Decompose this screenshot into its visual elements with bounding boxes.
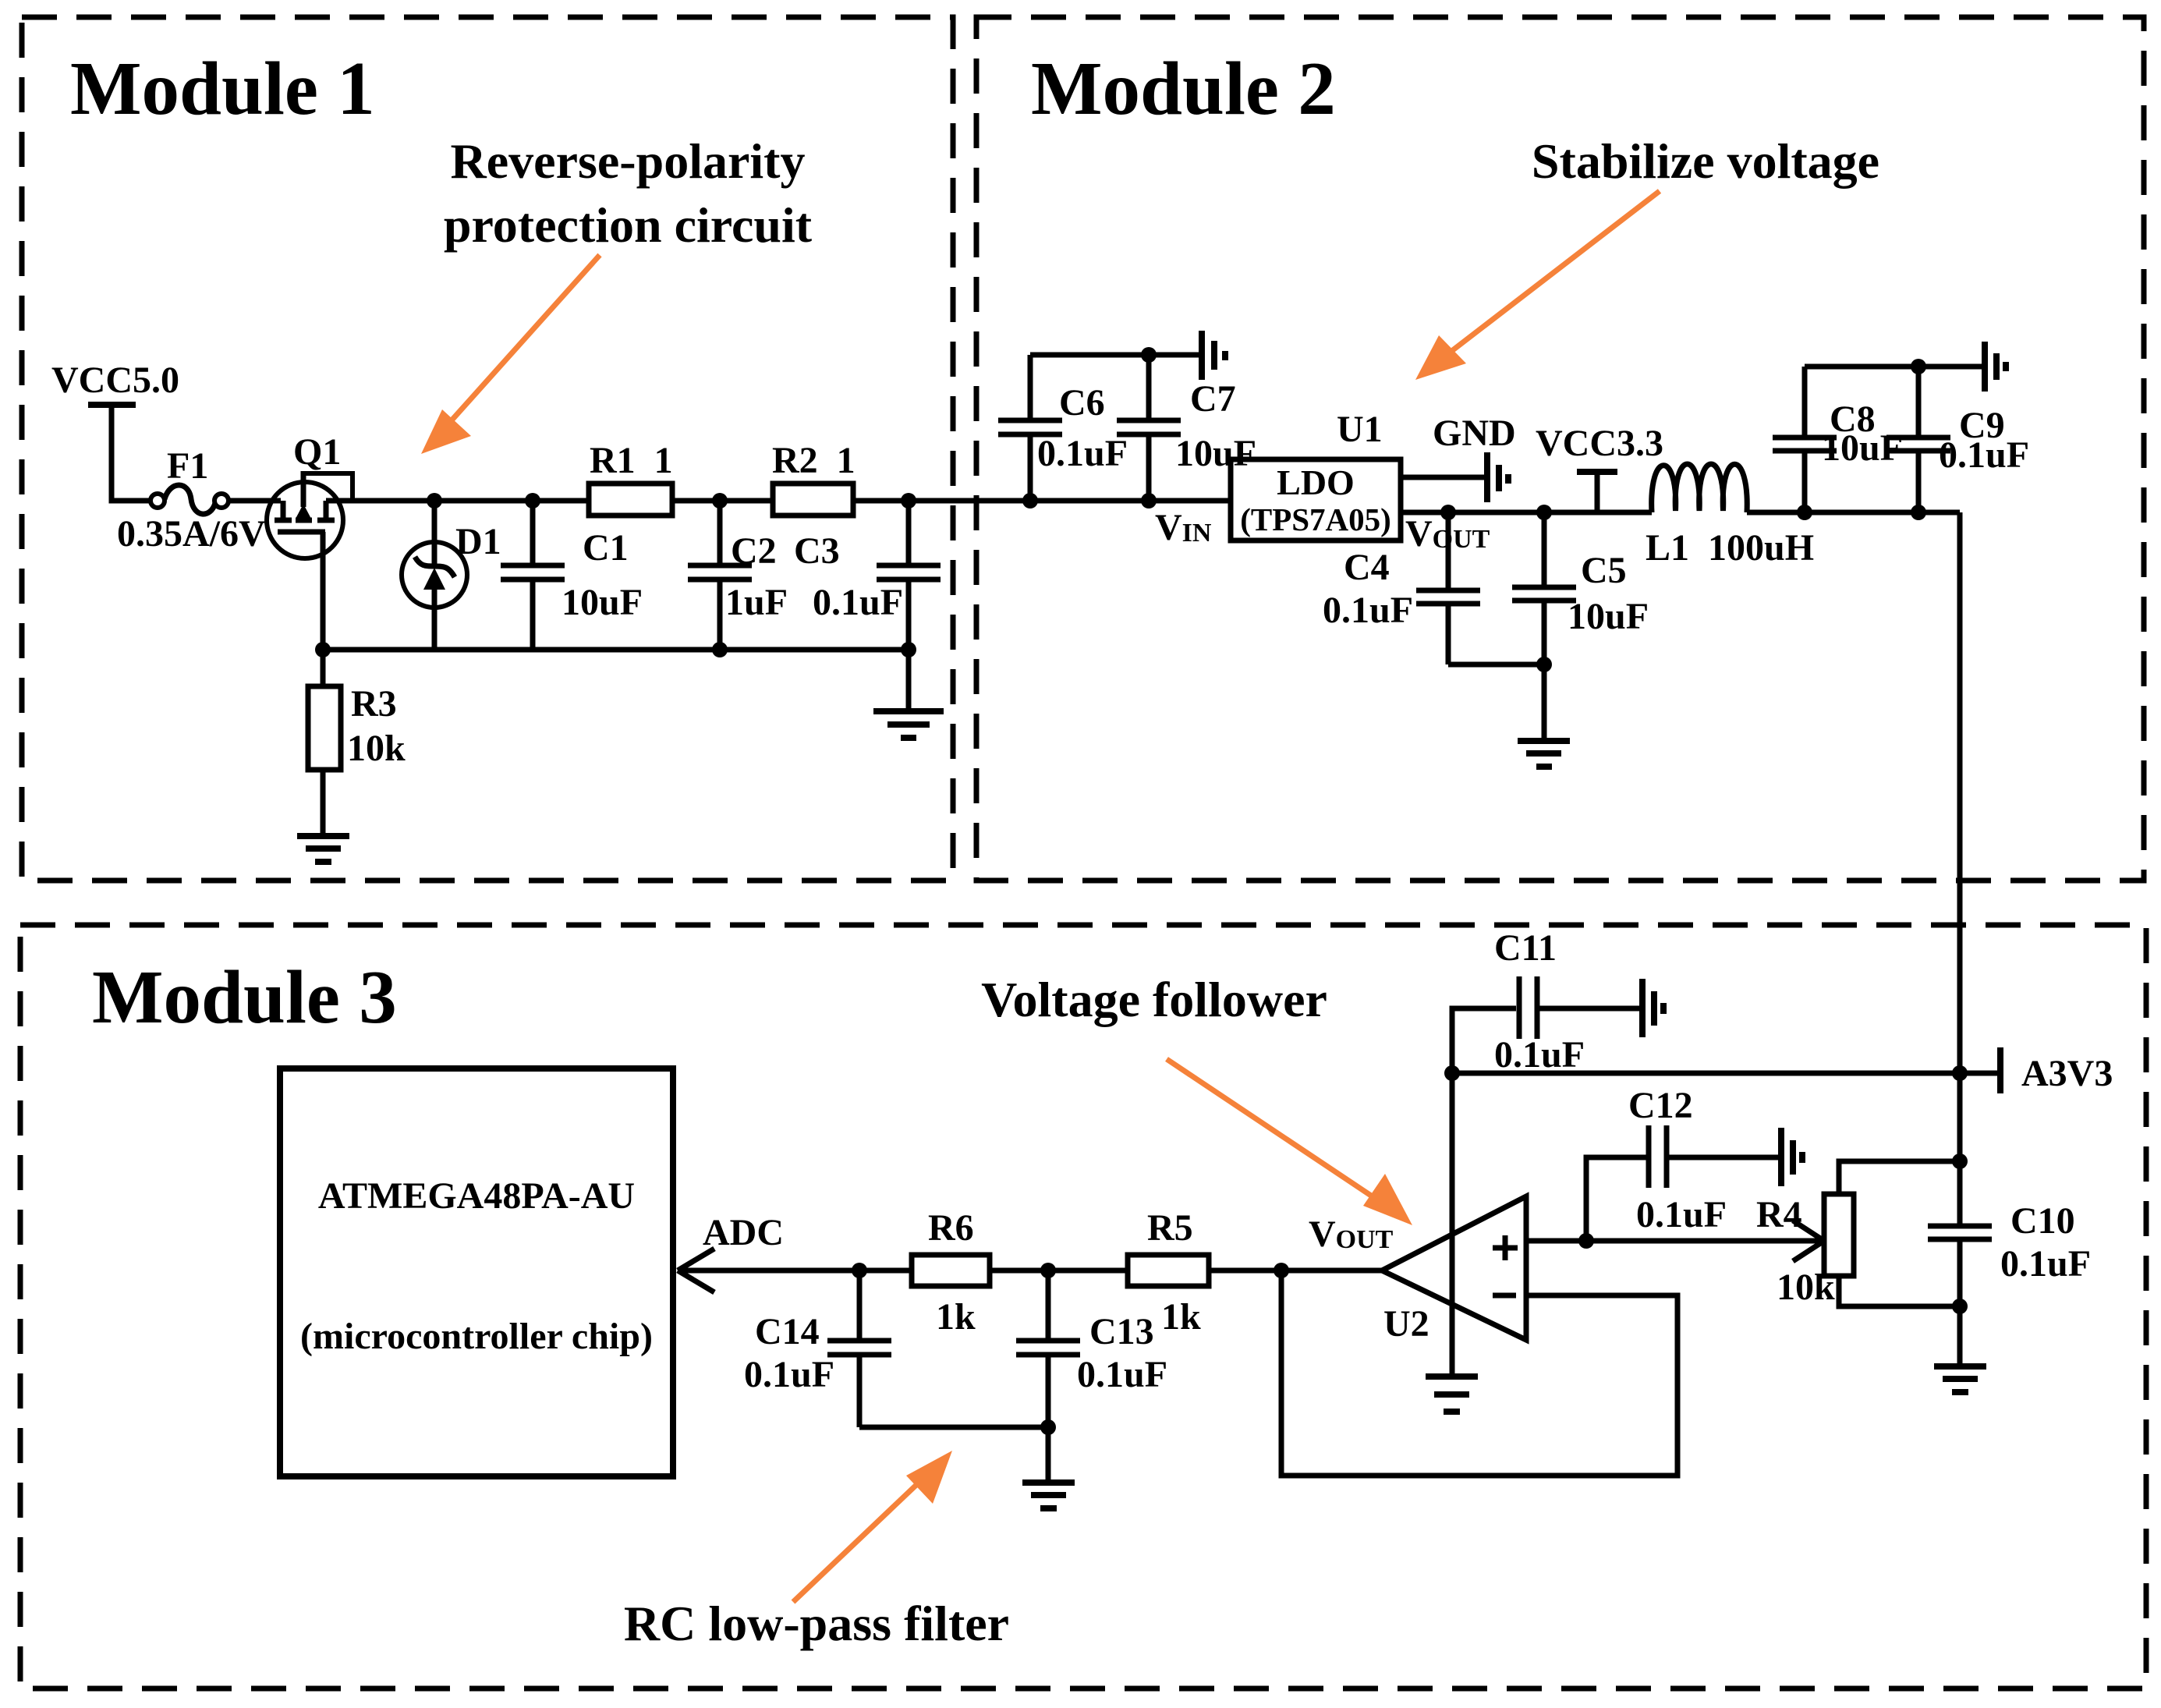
svg-text:F1: F1 bbox=[167, 445, 208, 487]
svg-text:0.1uF: 0.1uF bbox=[2000, 1243, 2091, 1285]
svg-text:D1: D1 bbox=[455, 521, 501, 562]
node junction R2/C3 bbox=[901, 493, 916, 509]
potentiometer R4 10k bbox=[1793, 1221, 1824, 1261]
wire C4/C5 bottom rail bbox=[1448, 662, 1544, 668]
svg-text:Stabilize voltage: Stabilize voltage bbox=[1532, 133, 1879, 189]
svg-text:R5: R5 bbox=[1147, 1207, 1193, 1249]
fuse F1 0.35A/6V bbox=[151, 494, 165, 508]
node junction R4 bottom / C10 bottom bbox=[1952, 1299, 1968, 1314]
wire feedback: output to minus input bbox=[1281, 1270, 1677, 1476]
capacitor C9 0.1uF bbox=[1916, 367, 1922, 435]
wire plus input to R4 wiper bbox=[1526, 1238, 1824, 1244]
node junction plus input / C12 bbox=[1578, 1233, 1594, 1249]
node junction top rail / C9 bbox=[1911, 359, 1926, 374]
svg-text:C12: C12 bbox=[1628, 1085, 1693, 1126]
ground (right-facing) at C8/C9 top rail bbox=[1918, 364, 1982, 370]
wire A3V3 rail bbox=[1452, 1071, 1960, 1076]
Module 2 boundary box bbox=[976, 17, 2144, 881]
resistor R2 1 bbox=[773, 484, 853, 516]
ground (right-facing) after C11 bbox=[1639, 979, 1646, 1037]
capacitor C5 10uF bbox=[1542, 512, 1547, 585]
svg-text:C1: C1 bbox=[583, 527, 629, 569]
ground below C13 bbox=[1022, 1479, 1075, 1486]
capacitor C2 1uF bbox=[717, 501, 723, 563]
svg-text:Module 3: Module 3 bbox=[92, 955, 397, 1039]
svg-text:0.1uF: 0.1uF bbox=[1077, 1354, 1167, 1395]
capacitor C4 0.1uF bbox=[1446, 512, 1451, 588]
power tap A3V3 bbox=[1960, 1071, 1998, 1076]
svg-text:C4: C4 bbox=[1344, 547, 1390, 588]
ground below C3 rail bbox=[906, 650, 912, 711]
op-amp U2 bbox=[1382, 1196, 1526, 1340]
node junction VOUT / C4 bbox=[1440, 505, 1456, 520]
node junction Vout / feedback bbox=[1274, 1263, 1289, 1278]
resistor R3 10k bbox=[321, 650, 326, 686]
svg-text:0.1uF: 0.1uF bbox=[813, 582, 903, 623]
svg-text:0.1uF: 0.1uF bbox=[1636, 1194, 1727, 1235]
wire top rail C6 to C7 bbox=[1030, 353, 1149, 358]
svg-text:0.1uF: 0.1uF bbox=[1939, 434, 2029, 476]
arrow into ADC pin bbox=[678, 1249, 714, 1292]
resistor R5 1k bbox=[1128, 1255, 1209, 1286]
op IC U1 LDO (TPS7A05) bbox=[1231, 459, 1401, 540]
transistor Q1 (P-MOSFET) bbox=[267, 482, 343, 558]
svg-text:C2: C2 bbox=[731, 530, 777, 572]
svg-text:C3: C3 bbox=[794, 530, 840, 572]
node junction C14 bbox=[852, 1263, 867, 1278]
svg-text:C5: C5 bbox=[1581, 550, 1627, 591]
svg-text:ADC: ADC bbox=[703, 1212, 784, 1253]
svg-text:U1: U1 bbox=[1337, 409, 1383, 450]
node junction VOUT / C5 bbox=[1536, 505, 1552, 520]
wire ADC line from op-amp to ATMEGA bbox=[678, 1268, 1382, 1274]
svg-text:VCC5.0: VCC5.0 bbox=[51, 360, 179, 401]
svg-text:10uF: 10uF bbox=[1568, 596, 1649, 637]
node junction C11 / A3V3 rail bbox=[1444, 1065, 1460, 1081]
svg-text:C7: C7 bbox=[1190, 378, 1236, 420]
plus sign bbox=[1493, 1235, 1518, 1260]
node junction rail/C13 bbox=[1040, 1419, 1056, 1435]
Module 1 boundary box bbox=[22, 17, 953, 881]
node junction C9 / main wire bbox=[1911, 505, 1926, 520]
svg-text:1uF: 1uF bbox=[725, 582, 788, 623]
annotation arrow to reverse-polarity circuit bbox=[421, 255, 600, 454]
wire VCC5.0 to fuse bbox=[112, 405, 151, 501]
svg-text:VCC3.3: VCC3.3 bbox=[1536, 423, 1663, 464]
annotation arrow to LDO bbox=[1415, 191, 1660, 380]
ground below op-amp bbox=[1426, 1373, 1478, 1380]
node junction R4 top / C10 bbox=[1952, 1153, 1968, 1169]
svg-text:C14: C14 bbox=[755, 1311, 820, 1352]
svg-text:Q1: Q1 bbox=[293, 431, 341, 473]
svg-text:0.1uF: 0.1uF bbox=[1323, 590, 1413, 631]
wire bottom rail (Q1 source to C3 ground node) bbox=[323, 647, 909, 653]
svg-text:10uF: 10uF bbox=[1175, 433, 1256, 474]
node junction main wire / C6 bbox=[1022, 493, 1038, 509]
svg-text:10k: 10k bbox=[347, 728, 406, 769]
wire C14 bottom rail to C13 bbox=[859, 1425, 1048, 1430]
svg-text:1k: 1k bbox=[1161, 1296, 1201, 1338]
ground below C10 bbox=[1934, 1363, 1986, 1370]
svg-text:Module 1: Module 1 bbox=[70, 47, 375, 130]
node junction top rail / C7 bbox=[1141, 347, 1157, 363]
wire VCC3.3 down to module 3 bbox=[1957, 512, 1963, 1073]
capacitor C1 10uF bbox=[525, 493, 540, 509]
svg-text:A3V3: A3V3 bbox=[2021, 1053, 2113, 1094]
pin GND wire of U1 bbox=[1401, 475, 1485, 480]
wire down to R4/C10 bbox=[1957, 1073, 1963, 1224]
node junction R1/R2/C2 bbox=[712, 493, 728, 509]
resistor R1 1 bbox=[589, 484, 672, 516]
svg-text:U2: U2 bbox=[1383, 1303, 1429, 1345]
annotation arrow to RC filter bbox=[793, 1451, 952, 1602]
svg-text:C6: C6 bbox=[1059, 382, 1105, 423]
capacitor C13 0.1uF bbox=[1046, 1270, 1051, 1338]
node junction C13/R6/R5 bbox=[1040, 1263, 1056, 1278]
svg-text:R2 1: R2 1 bbox=[772, 440, 856, 481]
resistor R6 1k bbox=[912, 1255, 990, 1286]
svg-text:0.35A/6V: 0.35A/6V bbox=[117, 513, 266, 555]
wire top rail C8 to C9 bbox=[1805, 364, 1918, 370]
capacitor C12 0.1uF (horizontal) bbox=[1586, 1157, 1646, 1241]
node junction main wire / C7 bbox=[1141, 493, 1157, 509]
node junction at Q1 drain / D1 bbox=[427, 493, 442, 509]
svg-text:1k: 1k bbox=[936, 1296, 976, 1338]
node junction L1 / C8 bbox=[1797, 505, 1812, 520]
svg-text:0.1uF: 0.1uF bbox=[744, 1354, 834, 1395]
capacitor C11 0.1uF (horizontal) bbox=[1452, 1008, 1516, 1073]
svg-text:Voltage follower: Voltage follower bbox=[981, 972, 1327, 1027]
svg-text:Reverse-polarity: Reverse-polarity bbox=[451, 133, 806, 189]
svg-text:(TPS7A05): (TPS7A05) bbox=[1240, 501, 1391, 537]
svg-text:(microcontroller chip): (microcontroller chip) bbox=[300, 1316, 653, 1357]
wire U1 VOUT to L1 bbox=[1401, 510, 1652, 516]
capacitor C7 10uF bbox=[1146, 355, 1152, 419]
svg-text:10uF: 10uF bbox=[562, 582, 643, 623]
svg-text:R4: R4 bbox=[1756, 1194, 1802, 1235]
capacitor C14 0.1uF bbox=[857, 1270, 863, 1338]
ground (right-facing) at C6/C7 top rail bbox=[1149, 353, 1199, 358]
svg-text:protection circuit: protection circuit bbox=[444, 197, 813, 253]
power flag VCC3.3 bbox=[1595, 474, 1600, 512]
wire L1 to C8/C9 bbox=[1747, 510, 1960, 516]
ground (right-facing) after C12 bbox=[1778, 1128, 1784, 1186]
svg-text:C11: C11 bbox=[1494, 927, 1557, 969]
zener diode D1 bbox=[432, 501, 438, 546]
wire op-amp V+ supply from A3V3 rail down through to ground bbox=[1450, 1073, 1455, 1377]
ground below R3 bbox=[297, 833, 349, 839]
capacitor C3 0.1uF bbox=[906, 501, 912, 563]
inductor L1 100uH bbox=[1652, 464, 1748, 512]
svg-text:Module 2: Module 2 bbox=[1031, 47, 1336, 130]
wire fuse to Q1 bbox=[228, 498, 281, 504]
capacitor C10 0.1uF bbox=[1928, 1224, 1992, 1229]
Module 3 boundary box bbox=[20, 925, 2146, 1689]
power flag VCC5.0 bbox=[88, 402, 136, 408]
capacitor C6 0.1uF bbox=[1028, 355, 1033, 419]
svg-text:GND: GND bbox=[1433, 413, 1516, 454]
svg-text:0.1uF: 0.1uF bbox=[1037, 433, 1128, 474]
svg-text:10k: 10k bbox=[1777, 1267, 1835, 1308]
ground below C5 bbox=[1542, 664, 1547, 739]
svg-text:C13: C13 bbox=[1089, 1311, 1154, 1352]
svg-text:LDO: LDO bbox=[1277, 462, 1355, 502]
ground (right-facing) at U1 GND pin bbox=[1484, 452, 1490, 502]
svg-text:C10: C10 bbox=[2010, 1200, 2075, 1242]
node junction A3V3 / VCC3.3 drop bbox=[1952, 1065, 1968, 1081]
svg-text:R1 1: R1 1 bbox=[590, 440, 673, 481]
svg-text:R6: R6 bbox=[928, 1207, 974, 1249]
IC ATMEGA48PA-AU microcontroller box bbox=[280, 1068, 673, 1476]
svg-text:RC low-pass filter: RC low-pass filter bbox=[624, 1596, 1009, 1651]
svg-text:0.1uF: 0.1uF bbox=[1494, 1034, 1585, 1075]
svg-text:L1 100uH: L1 100uH bbox=[1646, 527, 1814, 569]
capacitor C8 10uF bbox=[1802, 367, 1808, 435]
annotation arrow to op-amp bbox=[1167, 1059, 1412, 1225]
minus sign bbox=[1493, 1293, 1516, 1299]
svg-text:ATMEGA48PA-AU: ATMEGA48PA-AU bbox=[318, 1175, 635, 1217]
wire Q1 drain to node bbox=[326, 498, 1231, 504]
node junction below Q1 bbox=[315, 642, 331, 657]
svg-text:R3: R3 bbox=[351, 683, 397, 725]
